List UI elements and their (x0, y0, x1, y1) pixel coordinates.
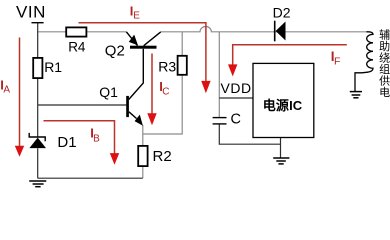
svg-text:B: B (93, 134, 100, 145)
svg-text:绕: 绕 (379, 51, 390, 64)
svg-text:C: C (231, 112, 241, 128)
svg-text:Q2: Q2 (105, 42, 125, 59)
svg-text:电: 电 (379, 86, 390, 99)
svg-text:D1: D1 (57, 134, 76, 151)
svg-text:R2: R2 (153, 148, 172, 165)
svg-text:助: 助 (379, 39, 390, 53)
svg-text:VDD: VDD (221, 80, 252, 96)
svg-text:D2: D2 (273, 5, 291, 21)
svg-text:VIN: VIN (16, 3, 45, 22)
svg-text:F: F (334, 56, 340, 68)
svg-text:组: 组 (379, 62, 390, 76)
svg-text:辅: 辅 (379, 27, 390, 41)
svg-text:C: C (162, 86, 169, 97)
svg-text:E: E (133, 11, 140, 22)
svg-text:A: A (3, 85, 10, 96)
svg-text:R4: R4 (68, 39, 86, 54)
svg-text:供: 供 (379, 73, 390, 87)
svg-text:R3: R3 (158, 59, 176, 75)
svg-text:电源IC: 电源IC (263, 98, 303, 113)
svg-text:Q1: Q1 (99, 84, 118, 100)
svg-text:R1: R1 (44, 59, 62, 75)
